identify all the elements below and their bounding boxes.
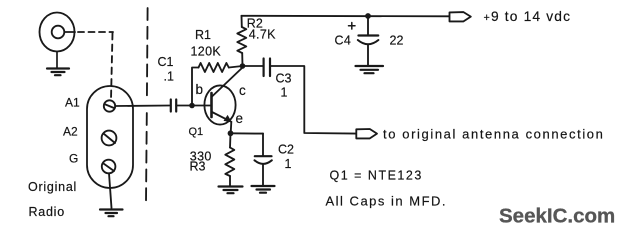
capacitor C1: [171, 100, 176, 112]
svg-text:C4: C4: [335, 33, 352, 47]
dashed boundary line (radio / new circuit separator): [146, 8, 149, 99]
wire (node J1 to transistor base): [192, 105, 211, 107]
terminal G: [102, 160, 116, 174]
capacitor C2: [255, 134, 272, 186]
svg-text:+9 to 14 vdc: +9 to 14 vdc: [484, 9, 572, 24]
ground (under C4): [356, 66, 384, 73]
node J2 (R1 / R2 / C3 / collector junction): [240, 63, 246, 69]
svg-text:C1: C1: [158, 55, 174, 69]
svg-text:R1: R1: [195, 28, 211, 42]
wire (node J3 to C2): [231, 132, 264, 134]
capacitor C3: [264, 59, 270, 77]
node (C4 tap on supply rail): [365, 13, 371, 19]
wire (dashed: down to terminal A1): [111, 33, 113, 100]
terminal A1: [104, 100, 115, 111]
svg-text:1: 1: [285, 157, 292, 171]
svg-text:C2: C2: [278, 143, 294, 157]
polarity + mark for C4: [349, 23, 356, 30]
wire (C1 to node J1): [176, 105, 192, 107]
svg-text:SeekIC.com: SeekIC.com: [499, 205, 615, 228]
connector J1 phono jack (original radio antenna jack): [40, 13, 76, 52]
svg-text:Q1 = NTE123: Q1 = NTE123: [330, 169, 423, 183]
svg-text:22: 22: [390, 33, 404, 47]
wire (terminal G to ground below strip): [109, 173, 112, 208]
svg-text:Q1: Q1: [189, 126, 204, 138]
wire (R1 to node J2): [229, 66, 243, 68]
svg-text:120K: 120K: [191, 45, 222, 59]
resistor R2: [237, 16, 246, 66]
node J3 (emitter / R3 / C2 junction): [228, 130, 234, 136]
wire (dashed: jack tip to terminal A1, horizontal run): [78, 31, 113, 33]
wire (node J2 to C3): [243, 65, 263, 67]
svg-text:Radio: Radio: [29, 205, 65, 219]
svg-text:G: G: [69, 152, 78, 166]
dashed boundary line (lower part): [145, 113, 148, 202]
svg-text:Original: Original: [28, 180, 77, 194]
svg-text:C3: C3: [276, 72, 292, 86]
node J1 (C1 / R1 / base junction): [189, 103, 195, 109]
ground (jack shield): [47, 52, 69, 76]
capacitor C4: [358, 16, 379, 65]
wire (C3 right, down and across to antenna arrow): [270, 66, 356, 134]
svg-text:4.7K: 4.7K: [249, 28, 276, 42]
terminal strip outline (original radio): [87, 86, 133, 188]
svg-text:1: 1: [281, 86, 288, 100]
svg-text:All Caps in MFD.: All Caps in MFD.: [326, 194, 448, 209]
svg-text:A2: A2: [63, 124, 78, 138]
svg-text:.1: .1: [164, 70, 174, 84]
svg-text:e: e: [236, 111, 244, 126]
ground (original radio strip): [100, 210, 123, 217]
resistor R1: [199, 63, 229, 72]
transistor Q1: [204, 68, 242, 134]
svg-text:A1: A1: [65, 96, 80, 110]
ground (under R3): [219, 187, 243, 194]
wire (node J1 up to R1): [192, 68, 199, 106]
resistor R3: [225, 133, 234, 186]
ground (under C2): [252, 186, 275, 193]
terminal A2: [102, 131, 117, 146]
svg-text:to original antenna connection: to original antenna connection: [383, 126, 604, 141]
svg-text:b: b: [196, 82, 204, 97]
svg-text:c: c: [239, 83, 246, 98]
wire (top supply rail): [242, 15, 450, 17]
terminal arrow (to original antenna connection): [356, 129, 377, 138]
wire (terminal A1 to capacitor C1): [115, 105, 169, 108]
svg-text:R3: R3: [190, 160, 206, 174]
terminal arrow (+9 to 14 vdc): [450, 12, 471, 21]
